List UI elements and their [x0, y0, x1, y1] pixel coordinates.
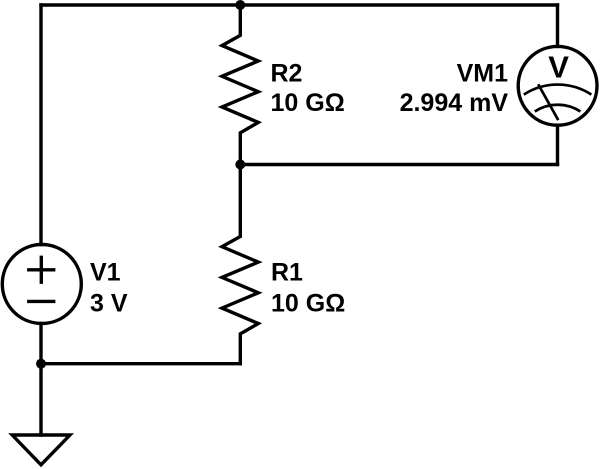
svg-text:R2: R2 — [271, 59, 303, 87]
svg-text:2.994 mV: 2.994 mV — [400, 89, 509, 117]
svg-text:V: V — [548, 49, 569, 84]
svg-text:3 V: 3 V — [90, 290, 128, 318]
svg-text:10 GΩ: 10 GΩ — [271, 290, 345, 318]
svg-text:R1: R1 — [271, 259, 303, 287]
svg-text:10 GΩ: 10 GΩ — [271, 89, 345, 117]
svg-text:V1: V1 — [90, 259, 121, 287]
svg-text:VM1: VM1 — [457, 59, 509, 87]
